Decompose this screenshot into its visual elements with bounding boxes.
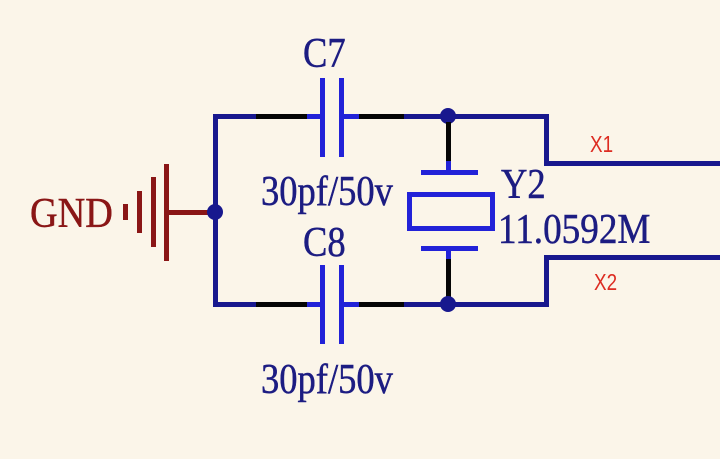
wire: bottom net lead left of C8 (black) [256,302,307,307]
wire: top net lead right of C7 (black) [359,114,404,119]
crystal Y2 [0,0,720,1]
wire: left vertical bus [213,114,218,307]
net label X1 [590,133,613,156]
junction: top node [440,108,456,124]
wire: bottom net to X2 corner (navy) [404,302,549,307]
wire: top net left segment [215,114,256,119]
value label 11.0592M [498,209,650,251]
net label X2 [594,271,617,294]
wire: bottom net lead right of C8 (black) [359,302,404,307]
label Y2 [501,164,546,206]
wire: crystal top lead (black) [446,122,451,161]
wire: X2 stub horizontal [544,255,720,260]
wire: X1 corner vertical [544,114,549,166]
junction: bottom node [440,296,456,312]
capacitor C8 [0,0,720,1]
wire: crystal bottom lead (black) [446,259,451,297]
value label 30pf/50v (C8) [261,359,393,401]
label C7 [303,33,346,75]
label C8 [303,222,346,264]
wire: X2 corner vertical [544,255,549,307]
ground symbol [0,0,720,1]
wire: bottom net left segment (navy) [215,302,256,307]
junction: left node [207,204,223,220]
wire: GND to left node (dark red) [168,210,215,215]
net label GND [30,193,113,235]
wire: top net to X1 corner (navy) [404,114,549,119]
capacitor C7 [0,0,720,1]
value label 30pf/50v (C7) [261,171,393,213]
wire: X1 stub horizontal [544,161,720,166]
wire: top net lead left of C7 (black) [256,114,307,119]
